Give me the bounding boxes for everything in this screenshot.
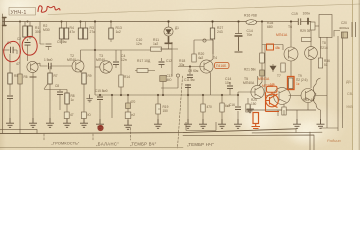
wire T1 to C5: [36, 63, 48, 66]
wire r8 to ground: [66, 104, 68, 118]
resistor R36: [318, 58, 322, 68]
ground g7: [86, 94, 92, 101]
transformer Tr1: [319, 15, 332, 38]
paper grain: [0, 0, 1, 1]
label box УНЧ-1: [9, 8, 36, 16]
connector circle node: [176, 74, 179, 77]
wire T2 collector up: [80, 50, 82, 61]
transistor T6: [284, 47, 298, 61]
wire pot to ground: [49, 84, 51, 118]
wire x40 branch: [40, 22, 45, 45]
transistor T3: [100, 61, 112, 73]
wire column x95: [94, 22, 96, 96]
transistor T2: [72, 60, 84, 72]
ground g11: [199, 119, 207, 128]
wire T7u emitter down: [310, 59, 312, 88]
orange resistor highlight: [288, 77, 295, 90]
red annotations: [4, 6, 342, 143]
resistor R17: [137, 69, 148, 73]
wire r2 to cap: [25, 37, 30, 41]
resistor R35: [311, 22, 316, 30]
resistor R32: [289, 78, 293, 89]
capacitor C4: [115, 50, 117, 61]
diode D2: [270, 64, 276, 72]
resistor R1: [28, 26, 32, 37]
left frame line: [2, 14, 4, 133]
connector box: [186, 122, 216, 131]
orange resistor column: [253, 113, 259, 124]
wire x33 to ground: [32, 78, 34, 119]
capacitor C12: [161, 58, 163, 61]
diode D1: [168, 22, 170, 28]
capacitor C19: [307, 18, 309, 25]
wire c6 to ground: [9, 99, 11, 118]
wire T6 emitter down: [290, 61, 292, 77]
wire y110: [246, 109, 316, 111]
dark cap column x163: [160, 76, 166, 82]
wire r17: [135, 70, 155, 72]
wire T4 emitter: [210, 73, 212, 96]
wire x172 vertical: [171, 42, 173, 76]
resistor R13: [110, 22, 112, 29]
wire T4 collector: [211, 40, 214, 61]
orange resistor R30 highlight: [267, 44, 274, 50]
capacitor C5: [49, 63, 52, 69]
ground g16: [317, 119, 325, 128]
ground g4: [63, 118, 71, 127]
wire T3 base: [95, 66, 100, 68]
orange label box T4: [215, 63, 230, 69]
ground g1: [6, 118, 14, 127]
resistor R4 top: [61, 22, 63, 29]
resistor box P1: [64, 112, 69, 119]
red handwriting top: [38, 6, 60, 12]
node column x20: [19, 22, 21, 75]
resistor R31: [282, 63, 284, 72]
wire T6 collector up: [290, 22, 292, 48]
resistor R2: [23, 26, 27, 37]
ground g5: [80, 118, 88, 127]
transistor T8l: [301, 89, 315, 103]
capacitor plate bar x33: [30, 76, 37, 78]
wire x265: [264, 45, 266, 96]
resistor R22: [202, 95, 204, 104]
ground g8: [124, 120, 132, 129]
resistor box P3: [125, 112, 131, 119]
resistor R3a: [80, 22, 82, 29]
ground g12: [218, 119, 226, 128]
wire T5 collector up: [257, 76, 259, 85]
capacitor C11 x188: [187, 84, 189, 95]
resistor R19 column x158: [157, 95, 159, 104]
resistor R29 horizontal: [302, 38, 312, 42]
resistor R21: [260, 53, 265, 63]
capacitor C14 x230: [229, 82, 231, 85]
resistor R23: [221, 95, 223, 103]
ground g14: [296, 110, 298, 119]
ground g6: [96, 119, 104, 128]
capacitor C3: [46, 44, 52, 47]
column x121 tall resistor: [120, 50, 122, 75]
ground g15: [277, 110, 279, 116]
resistor R27: [212, 22, 214, 29]
wire T7u top: [310, 22, 312, 47]
wire c2 to T1: [27, 45, 29, 61]
winding W1: [313, 84, 316, 104]
resistor box P2: [81, 112, 86, 119]
capacitor C2: [25, 43, 31, 46]
wire bottom right frame corner C: [183, 135, 314, 150]
transistor T7l: [274, 88, 291, 105]
wire wiper y89: [44, 89, 67, 91]
wire x238 ground: [237, 95, 239, 119]
resistor R4b: [66, 22, 68, 29]
separator dashes: [44, 76, 183, 148]
wire bottom faint second line: [0, 147, 183, 149]
capacitor C17 dark: [260, 70, 265, 76]
resistor R9 column x84: [83, 72, 85, 74]
capacitor C8: [59, 90, 61, 92]
switch line: [352, 22, 356, 37]
resistor R5: [8, 73, 12, 84]
wire column x50 pot: [49, 66, 51, 73]
transistor T5: [251, 85, 264, 98]
transistor T7u: [305, 47, 318, 60]
sheet top crease line: [48, 4, 360, 15]
resistor R16: [246, 20, 257, 25]
capacitor C10 label group: [189, 67, 191, 75]
wire between output pair: [265, 96, 327, 111]
page right edge shadow: [358, 0, 360, 150]
wire x343 long: [342, 38, 344, 128]
wire T1 emitter down: [32, 73, 34, 77]
wire y95 long: [95, 94, 238, 96]
transistor T1: [27, 61, 38, 72]
wire transformer legs: [320, 37, 322, 58]
capacitor C1 plates: [3, 49, 10, 51]
resistor R11: [151, 47, 162, 51]
wire bottom right frame corner A: [252, 129, 322, 133]
wire r5 down: [9, 84, 11, 95]
wire x338 long: [337, 36, 339, 131]
transistor T4: [200, 60, 213, 73]
potentiometer R7: [48, 73, 52, 84]
capacitor C18: [298, 18, 300, 25]
ground g9: [154, 119, 162, 128]
wire x262 drop: [262, 22, 283, 54]
capacitor C14: [238, 22, 240, 34]
wire bottom right frame corner B: [309, 132, 311, 150]
resistor R8: [66, 90, 68, 94]
ground g3: [46, 118, 54, 127]
capacitor C20: [334, 31, 340, 37]
orange transistor sketch: [266, 94, 279, 107]
wire x20 lower: [19, 84, 21, 134]
red circle 1: [4, 41, 21, 61]
wire y50 main: [81, 49, 151, 51]
resistor R20: [194, 40, 213, 54]
input terminal: [3, 18, 7, 26]
resistor R34: [283, 104, 285, 108]
wire c5 to T2 base: [51, 65, 72, 67]
ground g2: [29, 118, 37, 127]
capacitor C16: [235, 107, 241, 110]
ground g10: [187, 95, 189, 119]
orange small rect: [267, 86, 278, 92]
capacitor C6: [7, 96, 13, 99]
ground g13: [234, 119, 242, 128]
resistor R6 dark: [18, 74, 22, 84]
wire column x10: [9, 54, 11, 73]
wire T4 base: [178, 66, 204, 68]
wire T2 emitter: [80, 72, 82, 74]
resistor R3b: [85, 22, 87, 29]
resistor R24: [247, 98, 249, 104]
red blob bottom: [97, 125, 103, 131]
wire column x27 upper: [25, 22, 30, 27]
wire c1 to base: [13, 50, 17, 54]
wire T5 base: [238, 92, 255, 95]
wire x327 down: [321, 37, 339, 128]
wire bottom bus: [0, 129, 296, 134]
capacitor C13: [127, 95, 129, 103]
wire bottom-left step: [0, 129, 37, 133]
red circle 2: [22, 36, 37, 55]
wire x112: [111, 95, 113, 118]
wire main top rail: [3, 21, 312, 23]
capacitor C9 dark: [99, 95, 101, 96]
